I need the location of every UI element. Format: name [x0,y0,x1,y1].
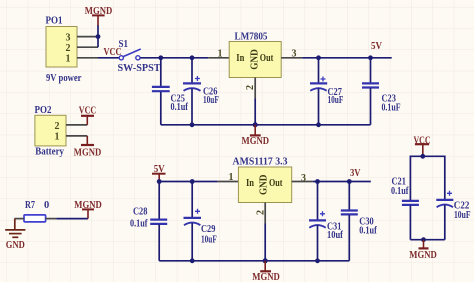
junction dot C29 bottom [190,258,195,263]
capacitor C29 10uF polarized [184,182,217,261]
wire to ground [14,219,16,230]
svg-text:10uF: 10uF [454,210,471,221]
capacitor C30 0.1uf [341,182,377,261]
svg-text:0.1uF: 0.1uF [382,102,401,113]
wire VCC rail right section [410,156,444,200]
svg-text:C28: C28 [133,207,147,218]
junction dot C27 top [316,55,321,60]
svg-text:Out: Out [269,178,283,189]
resistor R7 0 [24,200,49,222]
power port MGND at PO2 [74,136,102,159]
svg-text:2: 2 [66,43,71,54]
capacitor C21 0.1uf [391,177,419,240]
svg-text:5V: 5V [371,41,382,52]
pin 3 of PO1 [77,36,98,38]
power port VCC right section [414,135,431,156]
pin 3 of AMS1117 [292,181,313,183]
svg-text:R7: R7 [25,200,35,211]
capacitor C25 0.1uf [152,58,188,125]
svg-text:S1: S1 [119,39,129,50]
svg-text:PO1: PO1 [46,16,63,27]
pin 2 of LM7805 [254,78,256,99]
svg-text:10uf: 10uf [327,230,343,241]
junction dot C31 top [315,179,320,184]
junction dot C29 top [190,179,195,184]
power port 5V bottom circuit [152,164,166,182]
junction dot 5V stem [157,179,162,184]
svg-text:PO2: PO2 [35,105,52,116]
svg-text:SW-SPST: SW-SPST [118,63,161,74]
pin 2 of PO1 [77,46,98,48]
svg-text:1: 1 [229,172,234,183]
capacitor C23 0.1uF [362,58,401,125]
svg-text:0: 0 [44,200,49,211]
capacitor C26 10uF polarized [183,58,219,125]
svg-text:Out: Out [260,53,274,64]
svg-text:0.1uf: 0.1uf [130,218,148,229]
junction dot C25 top [158,55,163,60]
power port MGND at R7 [74,200,102,219]
power port MGND right section [409,240,437,261]
pin 3 of LM7805 [281,57,302,59]
connector PO1 [46,16,82,85]
svg-text:GND: GND [6,240,25,251]
svg-text:0.1uf: 0.1uf [391,186,409,197]
capacitor C22 10uF polarized [436,191,470,240]
svg-text:1: 1 [218,48,223,59]
svg-text:0.1uf: 0.1uf [171,102,189,113]
svg-text:LM7805: LM7805 [235,32,268,43]
power port MGND top [85,6,113,25]
svg-text:MGND: MGND [409,250,437,261]
svg-text:MGND: MGND [242,136,270,147]
svg-text:C29: C29 [201,224,215,235]
power port MGND bottom circuit [252,261,280,282]
wire PO1 pin1 to switch [98,57,121,59]
svg-text:GND: GND [259,175,270,196]
wire 5V rail to AMS1117 [159,181,217,183]
capacitor C27 10uF polarized [310,58,343,125]
junction dot pin2 bottom [253,122,258,127]
junction dot C26 bottom [190,122,195,127]
ground rail bottom circuit [159,260,349,262]
pin 1 of AMS1117 [217,181,238,183]
regulator AMS1117 3.3 [233,157,292,203]
pin 1 of LM7805 [208,57,229,59]
pin 1 of PO2 [66,135,87,137]
svg-text:In: In [236,53,244,64]
svg-text:MGND: MGND [74,148,102,159]
ground rail right section [410,239,444,241]
svg-text:3V: 3V [350,168,361,179]
svg-text:10uF: 10uF [203,95,219,106]
svg-text:GND: GND [249,49,260,70]
junction dot C26 top [190,55,195,60]
power port VCC at PO2 [79,105,96,125]
junction dot C31 bottom [315,258,320,263]
wire R7 to MGND [56,218,88,220]
ground rail top circuit [161,124,371,126]
pin 2 of AMS1117 [264,203,266,224]
pin right of R7 [46,218,57,220]
svg-text:1: 1 [66,54,71,65]
svg-text:0.1uf: 0.1uf [359,226,377,237]
power port MGND below rail [242,125,270,147]
capacitor C28 0.1uf [130,182,167,261]
svg-text:1: 1 [55,131,60,142]
junction dot C23 top [368,55,373,60]
junction dot VCC stem [420,154,425,159]
wire AMS1117 Out to 3V [313,181,371,183]
svg-text:10uF: 10uF [201,235,217,246]
junction dot C30 top [347,179,352,184]
wire LM7805 pin2 to ground rail [254,99,256,125]
svg-text:9V power: 9V power [46,73,82,84]
capacitor C31 10uf polarized [309,182,343,261]
switch S1 SW-SPST [118,39,161,74]
junction dot MGND stem [421,237,426,242]
junction dot C27 bottom [316,122,321,127]
pin 2 of PO2 [66,124,87,126]
svg-text:Battery: Battery [35,147,64,158]
svg-text:10uF: 10uF [328,95,344,106]
wire LM7805 Out to 5V [302,57,392,59]
wire switch to LM7805 [140,57,208,59]
junction dot pin2 bottom rail [263,258,268,263]
junction dot pin3/MGND [96,34,101,39]
pin 1 of PO1 [77,57,98,59]
pin left of R7 [15,218,25,220]
ground GND earth symbol [5,230,25,251]
svg-text:3: 3 [66,32,71,43]
svg-text:MGND: MGND [252,272,280,282]
svg-text:AMS1117 3.3: AMS1117 3.3 [233,157,288,168]
wire MGND vertical [97,25,99,47]
svg-text:In: In [246,178,254,189]
svg-text:2: 2 [55,121,60,132]
wire AMS1117 pin2 to ground rail [264,224,266,261]
connector PO2 [35,105,67,157]
regulator LM7805 [229,32,281,78]
